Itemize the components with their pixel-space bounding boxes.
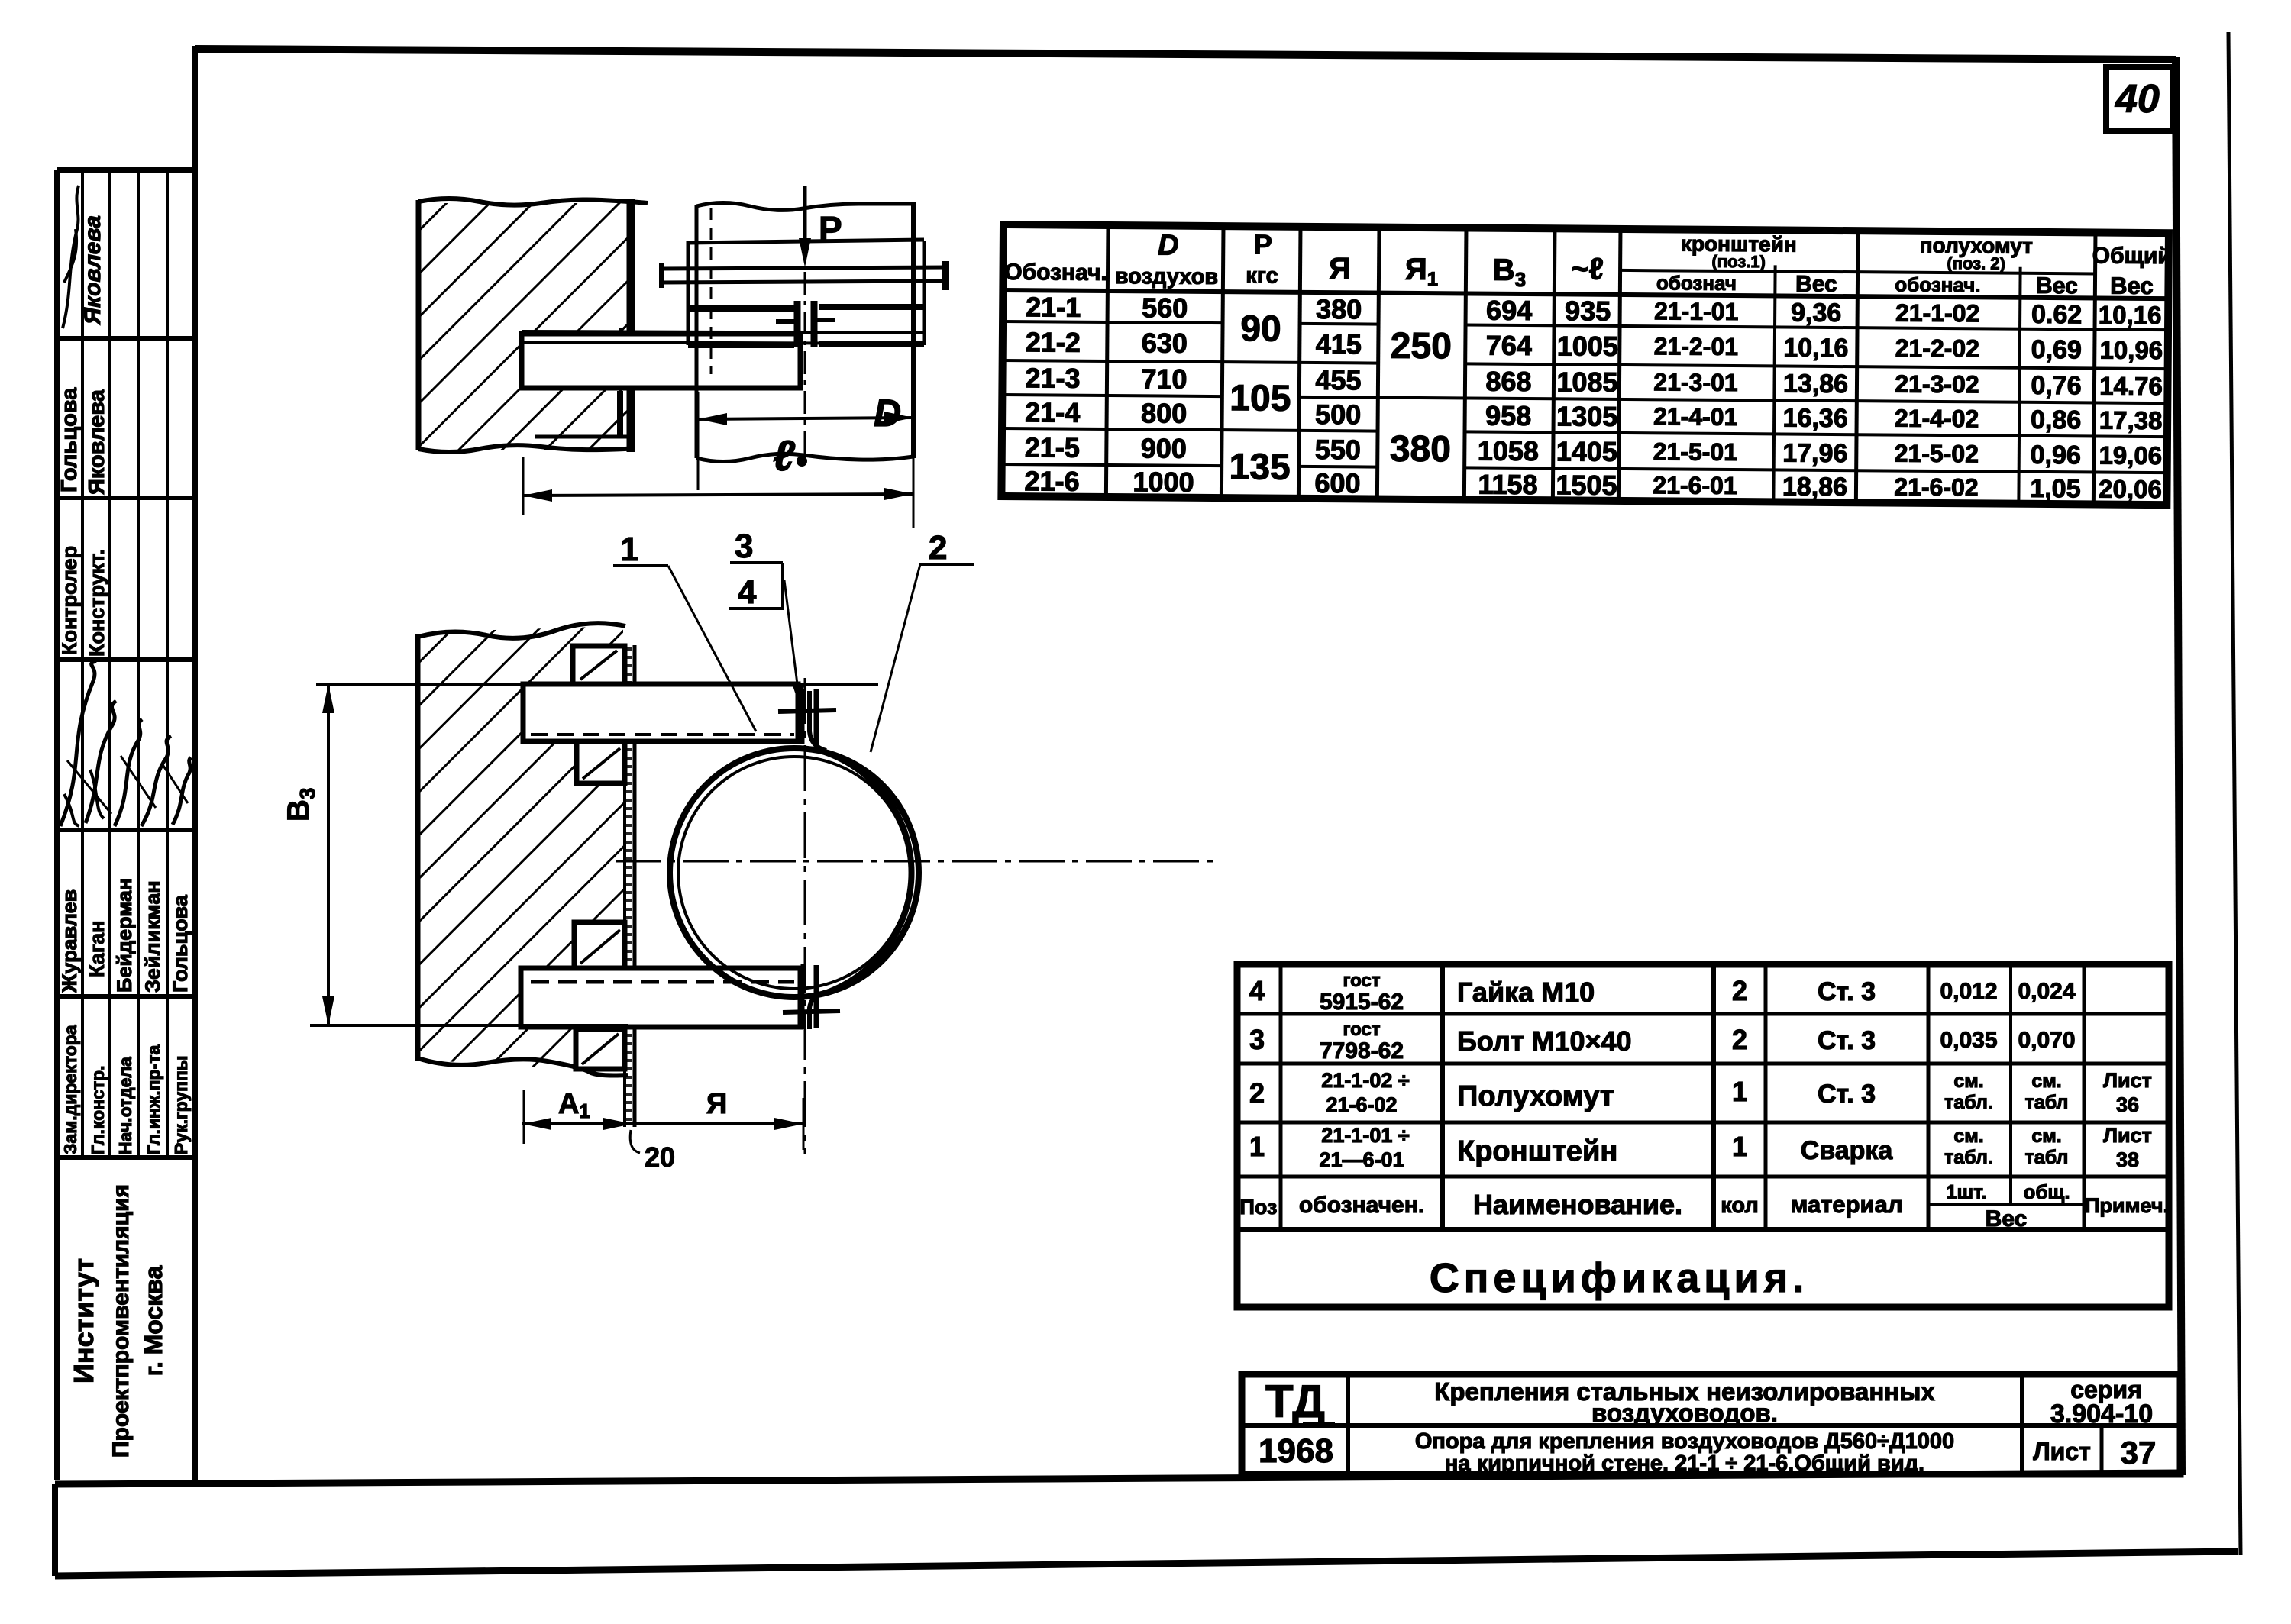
bolt shaft lower line <box>661 281 949 283</box>
svg-text:764: 764 <box>1486 330 1532 361</box>
svg-text:0,035: 0,035 <box>1940 1028 1997 1053</box>
drawing frame top edge <box>195 49 2176 60</box>
col line after Ya <box>1377 228 1379 499</box>
svg-text:1: 1 <box>1732 1131 1747 1162</box>
svg-text:3: 3 <box>1249 1024 1265 1055</box>
row line 2 <box>1003 360 2168 369</box>
svg-text:табл: табл <box>2025 1147 2069 1168</box>
svg-text:Конструкт.: Конструкт. <box>86 549 108 657</box>
title col line after TD <box>1346 1374 1350 1474</box>
svg-text:Лист: Лист <box>2103 1124 2152 1147</box>
bracket arm bar <box>522 334 800 388</box>
svg-text:135: 135 <box>1229 447 1290 488</box>
callout 3-4 leader <box>784 580 799 696</box>
svg-text:0,024: 0,024 <box>2018 979 2075 1004</box>
svg-text:40: 40 <box>2115 77 2160 121</box>
col line after P <box>1298 227 1301 499</box>
svg-text:21—6-01: 21—6-01 <box>1319 1148 1404 1171</box>
spec header row <box>1240 1180 2169 1232</box>
svg-text:1085: 1085 <box>1556 366 1617 398</box>
duct top break line <box>696 203 913 211</box>
data col L <box>1556 295 1618 501</box>
stamp divider y864 <box>57 657 195 662</box>
data col Ya1 merged <box>1390 326 1452 470</box>
lower arm hidden line dashed <box>531 980 794 984</box>
svg-text:Контролер: Контролер <box>58 546 81 655</box>
svg-text:10,16: 10,16 <box>1783 333 1848 363</box>
svg-text:Журавлев: Журавлев <box>58 889 81 993</box>
svg-text:см.: см. <box>1953 1070 1983 1092</box>
data col oboznach <box>1024 291 1081 497</box>
svg-text:(поз. 2): (поз. 2) <box>1947 253 2005 273</box>
spec col line after material <box>1927 964 1931 1229</box>
signature scribbles block D <box>60 661 96 826</box>
spec row line 1-header <box>1237 1175 2169 1179</box>
svg-text:Наименование.: Наименование. <box>1473 1189 1682 1220</box>
svg-text:500: 500 <box>1315 399 1361 430</box>
D arrowhead left <box>698 413 727 425</box>
svg-text:7798-62: 7798-62 <box>1320 1038 1404 1064</box>
svg-text:1505: 1505 <box>1556 469 1617 501</box>
A1/Ya dimension line <box>522 1122 803 1125</box>
stamp column outer left edge <box>54 170 60 1480</box>
svg-text:обозначен.: обозначен. <box>1299 1193 1424 1218</box>
svg-text:16,36: 16,36 <box>1782 403 1847 433</box>
spec col line after oboznachen <box>1440 964 1445 1229</box>
svg-text:Гл.инж.пр-та: Гл.инж.пр-та <box>144 1045 163 1154</box>
svg-text:900: 900 <box>1141 432 1187 463</box>
svg-text:21-6: 21-6 <box>1024 465 1079 497</box>
svg-text:21-5-01: 21-5-01 <box>1653 437 1738 466</box>
row line 1 <box>1003 321 2168 330</box>
svg-text:см.: см. <box>2031 1070 2061 1092</box>
svg-text:табл: табл <box>2025 1092 2069 1113</box>
data col kron oboznach <box>1653 297 1738 499</box>
clamp band lower line <box>688 344 924 345</box>
spec row 4 <box>1249 970 2076 1015</box>
specification table outer border <box>1237 964 2169 1307</box>
B3 arrowhead top <box>322 684 334 713</box>
svg-text:Болт М10×40: Болт М10×40 <box>1457 1025 1632 1057</box>
svg-text:Я: Я <box>706 1088 727 1120</box>
step bottom edge <box>535 435 631 439</box>
duct vertical centerline <box>804 678 806 1154</box>
svg-text:Поз: Поз <box>1240 1196 1278 1219</box>
svg-text:см.: см. <box>2031 1125 2061 1147</box>
svg-text:14.76: 14.76 <box>2099 372 2163 401</box>
svg-text:694: 694 <box>1486 295 1532 326</box>
D dimension line <box>698 418 913 419</box>
arm top strap line extended <box>522 331 923 333</box>
svg-text:380: 380 <box>1316 293 1362 324</box>
half clamp right edge <box>923 241 926 345</box>
outer sheet edge line right <box>2228 32 2241 1555</box>
svg-text:обознач: обознач <box>1656 271 1737 295</box>
wall top break line <box>418 199 648 205</box>
label L dot <box>797 456 807 467</box>
svg-text:21-4-01: 21-4-01 <box>1653 402 1738 431</box>
spec row 1 <box>1249 1124 2152 1171</box>
svg-text:0,070: 0,070 <box>2018 1028 2075 1053</box>
hatched wall step below arm <box>522 391 620 437</box>
spec col line after naimenovanie <box>1711 964 1716 1229</box>
svg-text:21-1-02: 21-1-02 <box>1895 299 1980 328</box>
svg-text:В3: В3 <box>1493 253 1527 291</box>
stamp row line x144 <box>108 170 111 1157</box>
parameters table outer border <box>1001 224 2169 505</box>
col line after B3 <box>1553 228 1555 500</box>
svg-text:см.: см. <box>1953 1125 1983 1147</box>
bolt left end cap <box>659 263 664 288</box>
svg-text:4: 4 <box>738 573 757 611</box>
svg-text:21-3: 21-3 <box>1025 362 1080 394</box>
svg-text:415: 415 <box>1316 328 1362 360</box>
svg-text:18,86: 18,86 <box>1782 472 1847 502</box>
A1 arrowhead left <box>522 1118 551 1130</box>
svg-text:гост: гост <box>1343 1019 1380 1040</box>
clamp ear left <box>794 301 801 347</box>
svg-text:37: 37 <box>2121 1435 2157 1471</box>
svg-text:кол: кол <box>1721 1193 1759 1218</box>
svg-text:В3: В3 <box>282 788 319 822</box>
svg-text:630: 630 <box>1142 327 1188 358</box>
svg-text:21-1-01: 21-1-01 <box>1654 297 1739 325</box>
svg-text:21-3-01: 21-3-01 <box>1653 368 1738 396</box>
spec col line after kol <box>1764 964 1768 1229</box>
wall section hatched (elevation) <box>418 626 623 1072</box>
col line after Ya1 <box>1464 228 1466 499</box>
col line after polukhomut <box>2093 232 2096 504</box>
stamp row line x181 <box>137 170 140 1157</box>
stamp divider y443 <box>57 336 195 341</box>
data col obschiy <box>2097 301 2163 504</box>
bolt shaft upper line <box>661 267 949 269</box>
wall bottom break line <box>418 445 632 452</box>
callout 4 underline <box>729 607 784 610</box>
duct inner circle <box>678 757 910 989</box>
upper bracket arm <box>523 684 798 741</box>
svg-text:20: 20 <box>645 1141 675 1173</box>
force P arrow line <box>803 186 807 243</box>
svg-text:9,36: 9,36 <box>1791 299 1841 328</box>
duct side edge right <box>911 202 916 458</box>
svg-text:2: 2 <box>1732 975 1747 1006</box>
data col polu ves <box>2030 300 2082 503</box>
spec row 2 <box>1249 1069 2152 1116</box>
stamp divider y1516 <box>57 1155 195 1160</box>
col line after D <box>1221 226 1223 498</box>
svg-text:Яковлева: Яковлева <box>85 389 109 495</box>
bolt cross bottom <box>783 1011 840 1012</box>
svg-text:Я: Я <box>1329 252 1351 286</box>
svg-text:Лист: Лист <box>2033 1438 2091 1465</box>
bottom strip top line <box>55 1473 2182 1484</box>
data col B3 <box>1477 295 1540 501</box>
callout 1 leader <box>668 566 756 731</box>
bolt cross ticks at ears <box>776 320 835 321</box>
data col P merged <box>1229 308 1291 488</box>
svg-text:Гл.констр.: Гл.констр. <box>88 1065 108 1154</box>
duct bottom break line <box>696 454 913 461</box>
svg-text:обознач.: обознач. <box>1895 273 1980 297</box>
svg-text:21-6-02: 21-6-02 <box>1326 1093 1397 1116</box>
svg-text:17,96: 17,96 <box>1782 438 1847 468</box>
svg-text:Вес: Вес <box>1986 1206 2028 1232</box>
wall bottom break line <box>418 1058 628 1076</box>
row line 5 <box>1002 464 2167 473</box>
svg-text:90: 90 <box>1240 308 1281 349</box>
stamp row line x219 <box>166 170 169 1157</box>
A1 arrowhead right <box>603 1118 632 1130</box>
svg-text:Спецификация.: Спецификация. <box>1430 1255 1808 1301</box>
svg-text:1405: 1405 <box>1556 435 1617 467</box>
spec row line 4-3 <box>1237 1012 2169 1016</box>
svg-text:800: 800 <box>1141 397 1187 428</box>
svg-text:36: 36 <box>2116 1093 2139 1116</box>
svg-text:Проектпромвентиляция: Проектпромвентиляция <box>108 1184 134 1458</box>
svg-text:3: 3 <box>735 528 753 565</box>
svg-text:21-2: 21-2 <box>1026 326 1081 358</box>
duct side edge left <box>695 205 699 458</box>
bottom strip bottom line <box>55 1551 2238 1576</box>
svg-text:Обознач.: Обознач. <box>1004 260 1107 286</box>
duct seam bottom tab <box>801 964 805 1029</box>
svg-text:21-6-01: 21-6-01 <box>1653 471 1737 499</box>
svg-text:Ст. 3: Ст. 3 <box>1818 977 1876 1006</box>
duct outer circle <box>670 748 919 997</box>
svg-text:0.62: 0.62 <box>2031 300 2082 329</box>
svg-text:Нач.отдела: Нач.отдела <box>115 1057 135 1154</box>
svg-text:табл.: табл. <box>1944 1092 1993 1113</box>
B3 dimension line <box>327 684 330 1025</box>
clamp bottom tab bend <box>809 992 826 1029</box>
svg-text:21-4: 21-4 <box>1025 396 1080 428</box>
svg-text:560: 560 <box>1142 292 1188 323</box>
svg-text:1058: 1058 <box>1478 435 1539 467</box>
svg-text:21-2-01: 21-2-01 <box>1654 332 1739 360</box>
wall pocket below upper arm <box>577 741 625 783</box>
duct hidden seam dashes <box>710 208 713 374</box>
svg-text:958: 958 <box>1485 400 1531 431</box>
svg-text:воздуховодов.: воздуховодов. <box>1591 1399 1778 1427</box>
svg-text:19,06: 19,06 <box>2099 441 2162 470</box>
svg-text:Гольцова: Гольцова <box>169 894 192 993</box>
callout 3-4 bracket <box>781 563 784 609</box>
svg-text:600: 600 <box>1314 467 1360 499</box>
callout 1 underline <box>613 564 668 567</box>
svg-text:Вес: Вес <box>2110 273 2154 299</box>
svg-text:Общий: Общий <box>2092 243 2172 269</box>
svg-text:1,05: 1,05 <box>2030 474 2080 503</box>
A1 left extension line <box>523 1090 525 1144</box>
spec col line ves split <box>2009 964 2012 1205</box>
svg-text:Я1: Я1 <box>1405 253 1439 290</box>
col line after L <box>1618 229 1621 501</box>
svg-text:2: 2 <box>929 529 947 567</box>
duct centerline vertical <box>804 272 806 470</box>
svg-text:1000: 1000 <box>1133 466 1194 498</box>
B3 top extension line <box>316 683 878 686</box>
svg-text:21-1-01 ÷: 21-1-01 ÷ <box>1321 1124 1410 1147</box>
spec col line after ves <box>2083 964 2086 1229</box>
wall face line <box>627 199 635 452</box>
spec row line 2-1 <box>1237 1121 2169 1125</box>
svg-text:105: 105 <box>1230 378 1291 419</box>
half clamp arc right side <box>825 752 912 993</box>
svg-text:10,16: 10,16 <box>2099 301 2162 330</box>
white cut for arm through wall <box>522 334 800 388</box>
svg-text:Зам.директора: Зам.директора <box>60 1025 80 1154</box>
sheet number box <box>2106 67 2173 131</box>
step right edge <box>617 391 623 437</box>
bracket vertical plate edge <box>619 328 622 438</box>
spec header bottom line <box>1237 1227 2169 1232</box>
title block mid line <box>1242 1423 2180 1428</box>
col line after oboznach <box>1106 225 1108 497</box>
half clamp left edge <box>687 241 690 345</box>
svg-text:20,06: 20,06 <box>2099 475 2162 504</box>
data col D <box>1133 292 1195 498</box>
svg-text:935: 935 <box>1565 295 1611 326</box>
stamp divider y652 <box>57 496 195 500</box>
svg-text:Гайка М10: Гайка М10 <box>1457 977 1595 1008</box>
svg-text:38: 38 <box>2116 1148 2139 1171</box>
L dimension line <box>523 494 913 496</box>
bottom strip left edge <box>52 1484 58 1576</box>
svg-text:10,96: 10,96 <box>2099 336 2163 365</box>
svg-text:Институт: Институт <box>68 1258 99 1383</box>
svg-text:550: 550 <box>1315 434 1361 465</box>
svg-text:5915-62: 5915-62 <box>1320 990 1404 1015</box>
svg-text:Р: Р <box>1254 228 1272 260</box>
B3 arrowhead bottom <box>322 996 334 1025</box>
data col polu oboznach <box>1894 299 1979 502</box>
logo TD base mark <box>1303 1422 1335 1427</box>
drawing frame left edge <box>192 46 198 1487</box>
svg-text:1: 1 <box>1732 1076 1747 1107</box>
callout 2 underline <box>919 563 974 566</box>
svg-text:Зейликман: Зейликман <box>141 880 164 993</box>
svg-text:воздухов: воздухов <box>1115 264 1219 289</box>
svg-text:1158: 1158 <box>1478 469 1537 501</box>
data col kron ves <box>1782 298 1849 502</box>
clamp top tab bend <box>809 691 826 751</box>
stamp divider y1305 <box>57 994 195 999</box>
svg-text:21-1: 21-1 <box>1026 291 1081 323</box>
svg-text:Ст. 3: Ст. 3 <box>1818 1080 1876 1109</box>
title col line before seriya <box>2020 1374 2024 1474</box>
svg-text:1: 1 <box>1249 1131 1265 1162</box>
svg-text:табл.: табл. <box>1944 1147 1993 1168</box>
wall pocket below lower arm <box>576 1029 625 1069</box>
svg-text:кгс: кгс <box>1246 263 1278 288</box>
bracket plate back line <box>633 645 637 1127</box>
svg-text:0,012: 0,012 <box>1940 979 1997 1004</box>
svg-text:250: 250 <box>1391 326 1452 367</box>
plate thickness 20 leader <box>630 1130 640 1153</box>
spec row line 3-2 <box>1237 1062 2169 1066</box>
svg-text:Вес: Вес <box>2036 273 2078 299</box>
clamp band upper line <box>688 307 924 308</box>
svg-text:2: 2 <box>1732 1024 1747 1055</box>
svg-text:1305: 1305 <box>1556 400 1617 432</box>
force P arrowhead <box>799 238 811 267</box>
callout 2 leader <box>871 564 920 752</box>
clamp top tab outer <box>814 689 819 747</box>
svg-text:на кирпичной стене. 21-1 ÷ 21-: на кирпичной стене. 21-1 ÷ 21-6.Общий ви… <box>1445 1451 1924 1476</box>
svg-text:455: 455 <box>1315 364 1361 396</box>
svg-text:17,38: 17,38 <box>2099 406 2163 435</box>
svg-text:0,76: 0,76 <box>2031 371 2081 400</box>
upper arm hidden line dashed <box>531 733 794 736</box>
bracket plate stipple <box>626 647 632 1125</box>
svg-text:1005: 1005 <box>1557 330 1618 362</box>
Ya arrowhead right <box>774 1118 803 1130</box>
callout 3 underline <box>730 561 783 564</box>
subheader divider line <box>1621 270 2096 274</box>
svg-text:P: P <box>819 209 842 249</box>
svg-text:2: 2 <box>1249 1077 1265 1109</box>
svg-text:21-6-02: 21-6-02 <box>1894 473 1979 502</box>
svg-text:868: 868 <box>1485 366 1531 397</box>
svg-text:Полухомут: Полухомут <box>1457 1080 1614 1112</box>
svg-text:гост: гост <box>1343 970 1380 991</box>
stamp divider y1087 <box>57 828 195 832</box>
title col line list number <box>2100 1425 2104 1474</box>
L arrowhead left <box>523 489 552 502</box>
duct seam top tab <box>801 689 805 744</box>
half clamp top edge <box>688 240 924 243</box>
svg-text:~ℓ: ~ℓ <box>1571 252 1604 286</box>
svg-text:21-5-02: 21-5-02 <box>1895 440 1979 468</box>
col line kronshtein ves split <box>1773 265 1775 502</box>
stamp column top edge <box>57 167 195 173</box>
wall section hatched (plan view) <box>418 203 628 450</box>
bolt cross top <box>778 710 836 712</box>
svg-text:13,86: 13,86 <box>1783 369 1848 399</box>
svg-text:4: 4 <box>1249 975 1265 1006</box>
stamp row line x108 <box>81 170 84 1157</box>
wall pocket above upper arm <box>573 646 625 684</box>
svg-text:Рук.группы: Рук.группы <box>171 1055 191 1154</box>
wall left edge <box>415 634 421 1061</box>
row line 4 <box>1002 428 2167 437</box>
svg-text:г. Москва: г. Москва <box>140 1266 167 1377</box>
clamp ear right <box>811 301 818 347</box>
svg-text:21-3-02: 21-3-02 <box>1895 370 1979 399</box>
spec row 3 <box>1249 1019 2076 1064</box>
svg-text:Каган: Каган <box>86 921 108 977</box>
L extension line left <box>522 457 525 515</box>
data col Ya <box>1314 293 1362 499</box>
svg-text:0,69: 0,69 <box>2031 335 2082 364</box>
duct horizontal centerline <box>616 860 1217 863</box>
wall top break line <box>418 623 625 638</box>
svg-text:материал: материал <box>1790 1191 1902 1218</box>
svg-text:Сварка: Сварка <box>1801 1136 1894 1165</box>
svg-text:380: 380 <box>1390 429 1451 470</box>
lower bracket arm <box>521 968 800 1027</box>
svg-text:1шт.: 1шт. <box>1946 1180 1987 1203</box>
L extension line right lower <box>913 458 915 528</box>
B3 bottom extension line <box>310 1024 628 1027</box>
svg-text:21-1-02 ÷: 21-1-02 ÷ <box>1321 1069 1410 1092</box>
wall pocket middle <box>574 922 625 968</box>
svg-text:21-2-02: 21-2-02 <box>1895 334 1980 363</box>
bolt head right <box>942 261 949 290</box>
row line 3 <box>1002 395 2167 403</box>
col line after kronshtein <box>1856 231 1858 502</box>
